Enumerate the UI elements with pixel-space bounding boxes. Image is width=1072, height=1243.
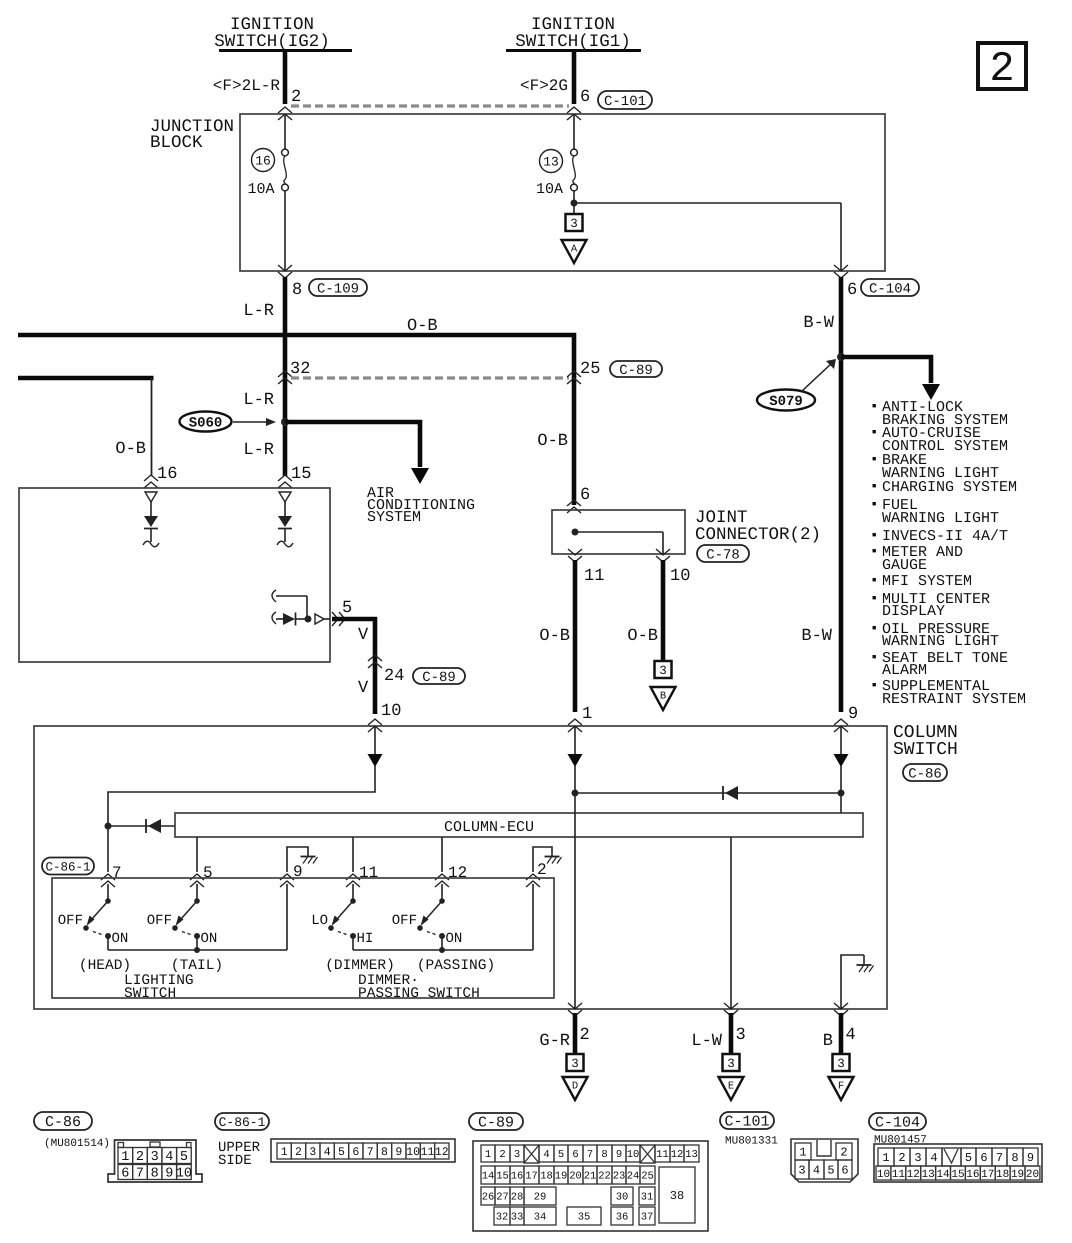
svg-text:ON: ON bbox=[112, 931, 129, 947]
svg-text:10: 10 bbox=[406, 1146, 420, 1159]
svg-text:L-R: L-R bbox=[243, 391, 274, 410]
svg-text:C-101: C-101 bbox=[724, 1114, 769, 1131]
svg-text:5: 5 bbox=[342, 599, 352, 618]
svg-text:6: 6 bbox=[352, 1146, 359, 1159]
svg-text:25: 25 bbox=[641, 1171, 654, 1183]
svg-text:21: 21 bbox=[584, 1171, 597, 1183]
svg-text:GAUGE: GAUGE bbox=[882, 557, 927, 574]
svg-text:SWITCH: SWITCH bbox=[893, 740, 958, 760]
svg-text:MU801331: MU801331 bbox=[725, 1136, 778, 1148]
svg-text:6: 6 bbox=[572, 1149, 578, 1161]
svg-text:V: V bbox=[358, 679, 369, 698]
svg-text:9: 9 bbox=[395, 1146, 402, 1159]
svg-text:(HEAD): (HEAD) bbox=[79, 958, 131, 974]
svg-text:C-104: C-104 bbox=[875, 1115, 920, 1132]
svg-text:7: 7 bbox=[112, 864, 122, 882]
svg-text:18: 18 bbox=[996, 1169, 1009, 1181]
svg-text:ON: ON bbox=[201, 931, 218, 947]
svg-text:18: 18 bbox=[540, 1171, 553, 1183]
svg-text:V: V bbox=[358, 626, 369, 645]
svg-text:15: 15 bbox=[496, 1171, 509, 1183]
svg-text:10: 10 bbox=[176, 1167, 192, 1182]
svg-text:1: 1 bbox=[281, 1146, 288, 1159]
svg-text:C-86-1: C-86-1 bbox=[45, 860, 90, 874]
svg-text:HI: HI bbox=[357, 931, 374, 947]
svg-text:WARNING LIGHT: WARNING LIGHT bbox=[882, 510, 999, 527]
svg-text:2: 2 bbox=[499, 1149, 505, 1161]
svg-text:7: 7 bbox=[587, 1149, 593, 1161]
svg-text:10: 10 bbox=[381, 702, 401, 721]
svg-text:9: 9 bbox=[616, 1149, 622, 1161]
svg-text:3: 3 bbox=[571, 1057, 579, 1071]
svg-text:L-R: L-R bbox=[243, 302, 274, 321]
svg-text:10A: 10A bbox=[247, 181, 274, 198]
svg-text:2: 2 bbox=[291, 88, 301, 107]
svg-text:27: 27 bbox=[496, 1192, 509, 1204]
svg-text:24: 24 bbox=[627, 1171, 640, 1183]
svg-text:DISPLAY: DISPLAY bbox=[882, 603, 945, 620]
svg-text:6: 6 bbox=[580, 88, 590, 107]
svg-text:B: B bbox=[660, 691, 666, 703]
svg-text:INVECS-II 4A/T: INVECS-II 4A/T bbox=[882, 528, 1008, 545]
svg-text:32: 32 bbox=[290, 360, 310, 379]
svg-text:C-86: C-86 bbox=[908, 766, 942, 782]
svg-text:37: 37 bbox=[641, 1212, 654, 1224]
svg-text:C-109: C-109 bbox=[317, 281, 359, 297]
svg-text:11: 11 bbox=[359, 864, 378, 882]
svg-text:O-B: O-B bbox=[407, 317, 438, 336]
svg-text:3: 3 bbox=[514, 1149, 520, 1161]
svg-text:11: 11 bbox=[892, 1169, 906, 1181]
svg-text:SWITCH: SWITCH bbox=[124, 986, 176, 1002]
svg-text:3: 3 bbox=[837, 1057, 845, 1071]
svg-text:OFF: OFF bbox=[392, 913, 417, 929]
svg-text:12: 12 bbox=[448, 864, 467, 882]
svg-text:(PASSING): (PASSING) bbox=[417, 958, 495, 974]
svg-text:3: 3 bbox=[914, 1151, 921, 1165]
svg-text:22: 22 bbox=[598, 1171, 611, 1183]
svg-text:B: B bbox=[823, 1032, 833, 1051]
svg-text:24: 24 bbox=[384, 667, 404, 686]
svg-text:1: 1 bbox=[582, 705, 592, 724]
svg-text:15: 15 bbox=[291, 465, 311, 484]
svg-text:S060: S060 bbox=[189, 416, 223, 432]
svg-text:14: 14 bbox=[936, 1169, 950, 1181]
svg-text:32: 32 bbox=[496, 1212, 509, 1224]
svg-text:7: 7 bbox=[367, 1146, 374, 1159]
svg-text:C-78: C-78 bbox=[706, 547, 740, 563]
svg-text:3: 3 bbox=[727, 1057, 735, 1071]
svg-text:38: 38 bbox=[670, 1189, 684, 1203]
svg-text:6: 6 bbox=[841, 1164, 848, 1178]
svg-text:8: 8 bbox=[151, 1167, 159, 1182]
svg-text:4: 4 bbox=[543, 1149, 549, 1161]
svg-text:11: 11 bbox=[656, 1149, 669, 1161]
svg-text:E: E bbox=[728, 1081, 734, 1093]
svg-text:4: 4 bbox=[324, 1146, 331, 1159]
svg-text:8: 8 bbox=[292, 281, 302, 300]
svg-text:2: 2 bbox=[989, 45, 1014, 93]
svg-text:B-W: B-W bbox=[803, 314, 834, 333]
svg-text:C-86-1: C-86-1 bbox=[219, 1115, 266, 1130]
svg-text:C-89: C-89 bbox=[619, 363, 653, 379]
svg-text:C-101: C-101 bbox=[604, 94, 646, 110]
svg-text:28: 28 bbox=[511, 1192, 524, 1204]
svg-text:7: 7 bbox=[136, 1167, 144, 1182]
svg-text:2: 2 bbox=[295, 1146, 302, 1159]
svg-text:16: 16 bbox=[966, 1169, 979, 1181]
svg-text:25: 25 bbox=[580, 360, 600, 379]
svg-text:OFF: OFF bbox=[147, 913, 172, 929]
svg-text:10: 10 bbox=[627, 1149, 640, 1161]
svg-text:6: 6 bbox=[980, 1151, 987, 1165]
svg-text:12: 12 bbox=[435, 1146, 449, 1159]
svg-text:17: 17 bbox=[525, 1171, 538, 1183]
svg-text:3: 3 bbox=[151, 1150, 159, 1165]
svg-text:2: 2 bbox=[840, 1146, 847, 1160]
svg-text:9: 9 bbox=[165, 1167, 173, 1182]
svg-text:O-B: O-B bbox=[537, 432, 568, 451]
svg-text:17: 17 bbox=[981, 1169, 994, 1181]
svg-text:L-R: L-R bbox=[243, 441, 274, 460]
svg-text:COLUMN-ECU: COLUMN-ECU bbox=[444, 819, 534, 836]
svg-text:BLOCK: BLOCK bbox=[150, 133, 203, 153]
svg-text:LO: LO bbox=[311, 913, 328, 929]
svg-text:10: 10 bbox=[670, 567, 690, 586]
svg-text:G-R: G-R bbox=[539, 1032, 570, 1051]
svg-text:(DIMMER): (DIMMER) bbox=[325, 958, 395, 974]
svg-text:C-89: C-89 bbox=[422, 670, 456, 686]
svg-text:F: F bbox=[838, 1081, 844, 1093]
svg-text:(MU801514): (MU801514) bbox=[44, 1138, 110, 1150]
svg-text:OFF: OFF bbox=[58, 913, 83, 929]
svg-text:3: 3 bbox=[736, 1026, 746, 1045]
svg-text:1: 1 bbox=[882, 1151, 889, 1165]
svg-text:5: 5 bbox=[558, 1149, 564, 1161]
svg-text:31: 31 bbox=[641, 1192, 654, 1204]
svg-text:O-B: O-B bbox=[539, 627, 570, 646]
svg-text:11: 11 bbox=[421, 1146, 435, 1159]
svg-text:5: 5 bbox=[180, 1150, 188, 1165]
svg-text:O-B: O-B bbox=[627, 627, 658, 646]
svg-text:8: 8 bbox=[1011, 1151, 1018, 1165]
svg-text:C-89: C-89 bbox=[478, 1115, 514, 1132]
svg-text:SIDE: SIDE bbox=[218, 1153, 252, 1169]
svg-text:29: 29 bbox=[534, 1192, 547, 1204]
svg-text:2: 2 bbox=[537, 861, 547, 879]
svg-text:CHARGING SYSTEM: CHARGING SYSTEM bbox=[882, 479, 1017, 496]
svg-text:B-W: B-W bbox=[801, 627, 832, 646]
svg-text:1: 1 bbox=[121, 1150, 129, 1165]
svg-text:6: 6 bbox=[580, 486, 590, 505]
svg-text:5: 5 bbox=[827, 1164, 834, 1178]
svg-text:16: 16 bbox=[255, 154, 271, 169]
svg-text:6: 6 bbox=[121, 1167, 129, 1182]
svg-text:30: 30 bbox=[616, 1192, 629, 1204]
svg-text:15: 15 bbox=[951, 1169, 964, 1181]
svg-text:SYSTEM: SYSTEM bbox=[367, 509, 421, 526]
svg-text:20: 20 bbox=[569, 1171, 582, 1183]
svg-text:7: 7 bbox=[996, 1151, 1003, 1165]
svg-text:ON: ON bbox=[446, 931, 463, 947]
svg-text:5: 5 bbox=[965, 1151, 972, 1165]
svg-text:14: 14 bbox=[482, 1171, 495, 1183]
svg-text:5: 5 bbox=[203, 864, 213, 882]
svg-text:6: 6 bbox=[847, 281, 857, 300]
svg-text:33: 33 bbox=[511, 1212, 524, 1224]
svg-text:D: D bbox=[572, 1081, 578, 1093]
svg-text:10A: 10A bbox=[536, 181, 563, 198]
svg-text:(TAIL): (TAIL) bbox=[171, 958, 223, 974]
svg-text:8: 8 bbox=[381, 1146, 388, 1159]
svg-text:16: 16 bbox=[511, 1171, 524, 1183]
svg-text:PASSING SWITCH: PASSING SWITCH bbox=[358, 986, 480, 1002]
svg-text:5: 5 bbox=[338, 1146, 345, 1159]
svg-text:13: 13 bbox=[685, 1149, 698, 1161]
svg-text:MFI SYSTEM: MFI SYSTEM bbox=[882, 573, 972, 590]
svg-text:19: 19 bbox=[1011, 1169, 1024, 1181]
svg-text:13: 13 bbox=[922, 1169, 935, 1181]
svg-text:34: 34 bbox=[534, 1212, 547, 1224]
svg-text:20: 20 bbox=[1026, 1169, 1039, 1181]
svg-text:11: 11 bbox=[584, 567, 604, 586]
svg-text:RESTRAINT SYSTEM: RESTRAINT SYSTEM bbox=[882, 691, 1026, 708]
svg-text:4: 4 bbox=[930, 1151, 937, 1165]
svg-text:4: 4 bbox=[846, 1026, 856, 1045]
svg-text:3: 3 bbox=[798, 1164, 805, 1178]
svg-text:9: 9 bbox=[848, 705, 858, 724]
svg-text:23: 23 bbox=[613, 1171, 626, 1183]
svg-text:1: 1 bbox=[485, 1149, 491, 1161]
svg-text:2: 2 bbox=[580, 1026, 590, 1045]
svg-text:O-B: O-B bbox=[115, 440, 146, 459]
svg-text:<F>2G: <F>2G bbox=[520, 77, 568, 95]
svg-text:3: 3 bbox=[309, 1146, 316, 1159]
svg-text:4: 4 bbox=[165, 1150, 173, 1165]
svg-text:10: 10 bbox=[877, 1169, 890, 1181]
svg-text:26: 26 bbox=[482, 1192, 495, 1204]
svg-text:ALARM: ALARM bbox=[882, 662, 927, 679]
svg-text:2: 2 bbox=[898, 1151, 905, 1165]
svg-text:<F>2L-R: <F>2L-R bbox=[213, 77, 281, 95]
svg-text:WARNING LIGHT: WARNING LIGHT bbox=[882, 633, 999, 650]
svg-text:C-104: C-104 bbox=[869, 281, 911, 297]
svg-text:S079: S079 bbox=[769, 394, 803, 410]
svg-text:8: 8 bbox=[601, 1149, 607, 1161]
svg-text:3: 3 bbox=[659, 664, 667, 678]
svg-text:16: 16 bbox=[157, 465, 177, 484]
svg-text:3: 3 bbox=[570, 217, 578, 231]
svg-text:35: 35 bbox=[578, 1212, 591, 1224]
svg-text:9: 9 bbox=[1027, 1151, 1034, 1165]
svg-text:13: 13 bbox=[543, 155, 559, 170]
svg-text:12: 12 bbox=[907, 1169, 920, 1181]
svg-text:C-86: C-86 bbox=[45, 1114, 81, 1131]
svg-text:L-W: L-W bbox=[691, 1032, 722, 1051]
svg-text:12: 12 bbox=[671, 1149, 684, 1161]
svg-text:CONNECTOR(2): CONNECTOR(2) bbox=[695, 525, 821, 545]
svg-text:A: A bbox=[571, 244, 578, 256]
svg-text:4: 4 bbox=[813, 1164, 820, 1178]
svg-text:36: 36 bbox=[616, 1212, 629, 1224]
svg-text:19: 19 bbox=[555, 1171, 568, 1183]
svg-text:1: 1 bbox=[799, 1146, 806, 1160]
svg-text:2: 2 bbox=[136, 1150, 144, 1165]
